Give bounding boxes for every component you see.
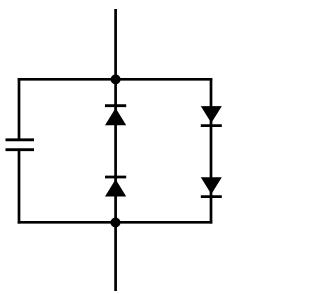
capacitor C1	[6, 140, 35, 150]
wire: top horizontal bus	[18, 78, 213, 81]
diode D3 (right upper, pointing down)	[201, 106, 222, 126]
wire: left vertical upper (top bus to capacitor)	[18, 78, 21, 140]
wire: bottom horizontal bus	[18, 221, 213, 224]
wire: center vertical (top lead through middle branch to bottom lead)	[114, 9, 117, 291]
node: top junction	[111, 74, 121, 84]
diode D4 (right lower, pointing down)	[201, 177, 222, 196]
diode D2 (middle lower, pointing up)	[105, 177, 126, 197]
node: bottom junction	[111, 218, 121, 228]
wire: right vertical (top bus to bottom bus)	[210, 78, 213, 224]
diode D1 (middle upper, pointing up)	[105, 106, 126, 126]
wire: left vertical lower (capacitor to bottom bus)	[18, 150, 21, 224]
